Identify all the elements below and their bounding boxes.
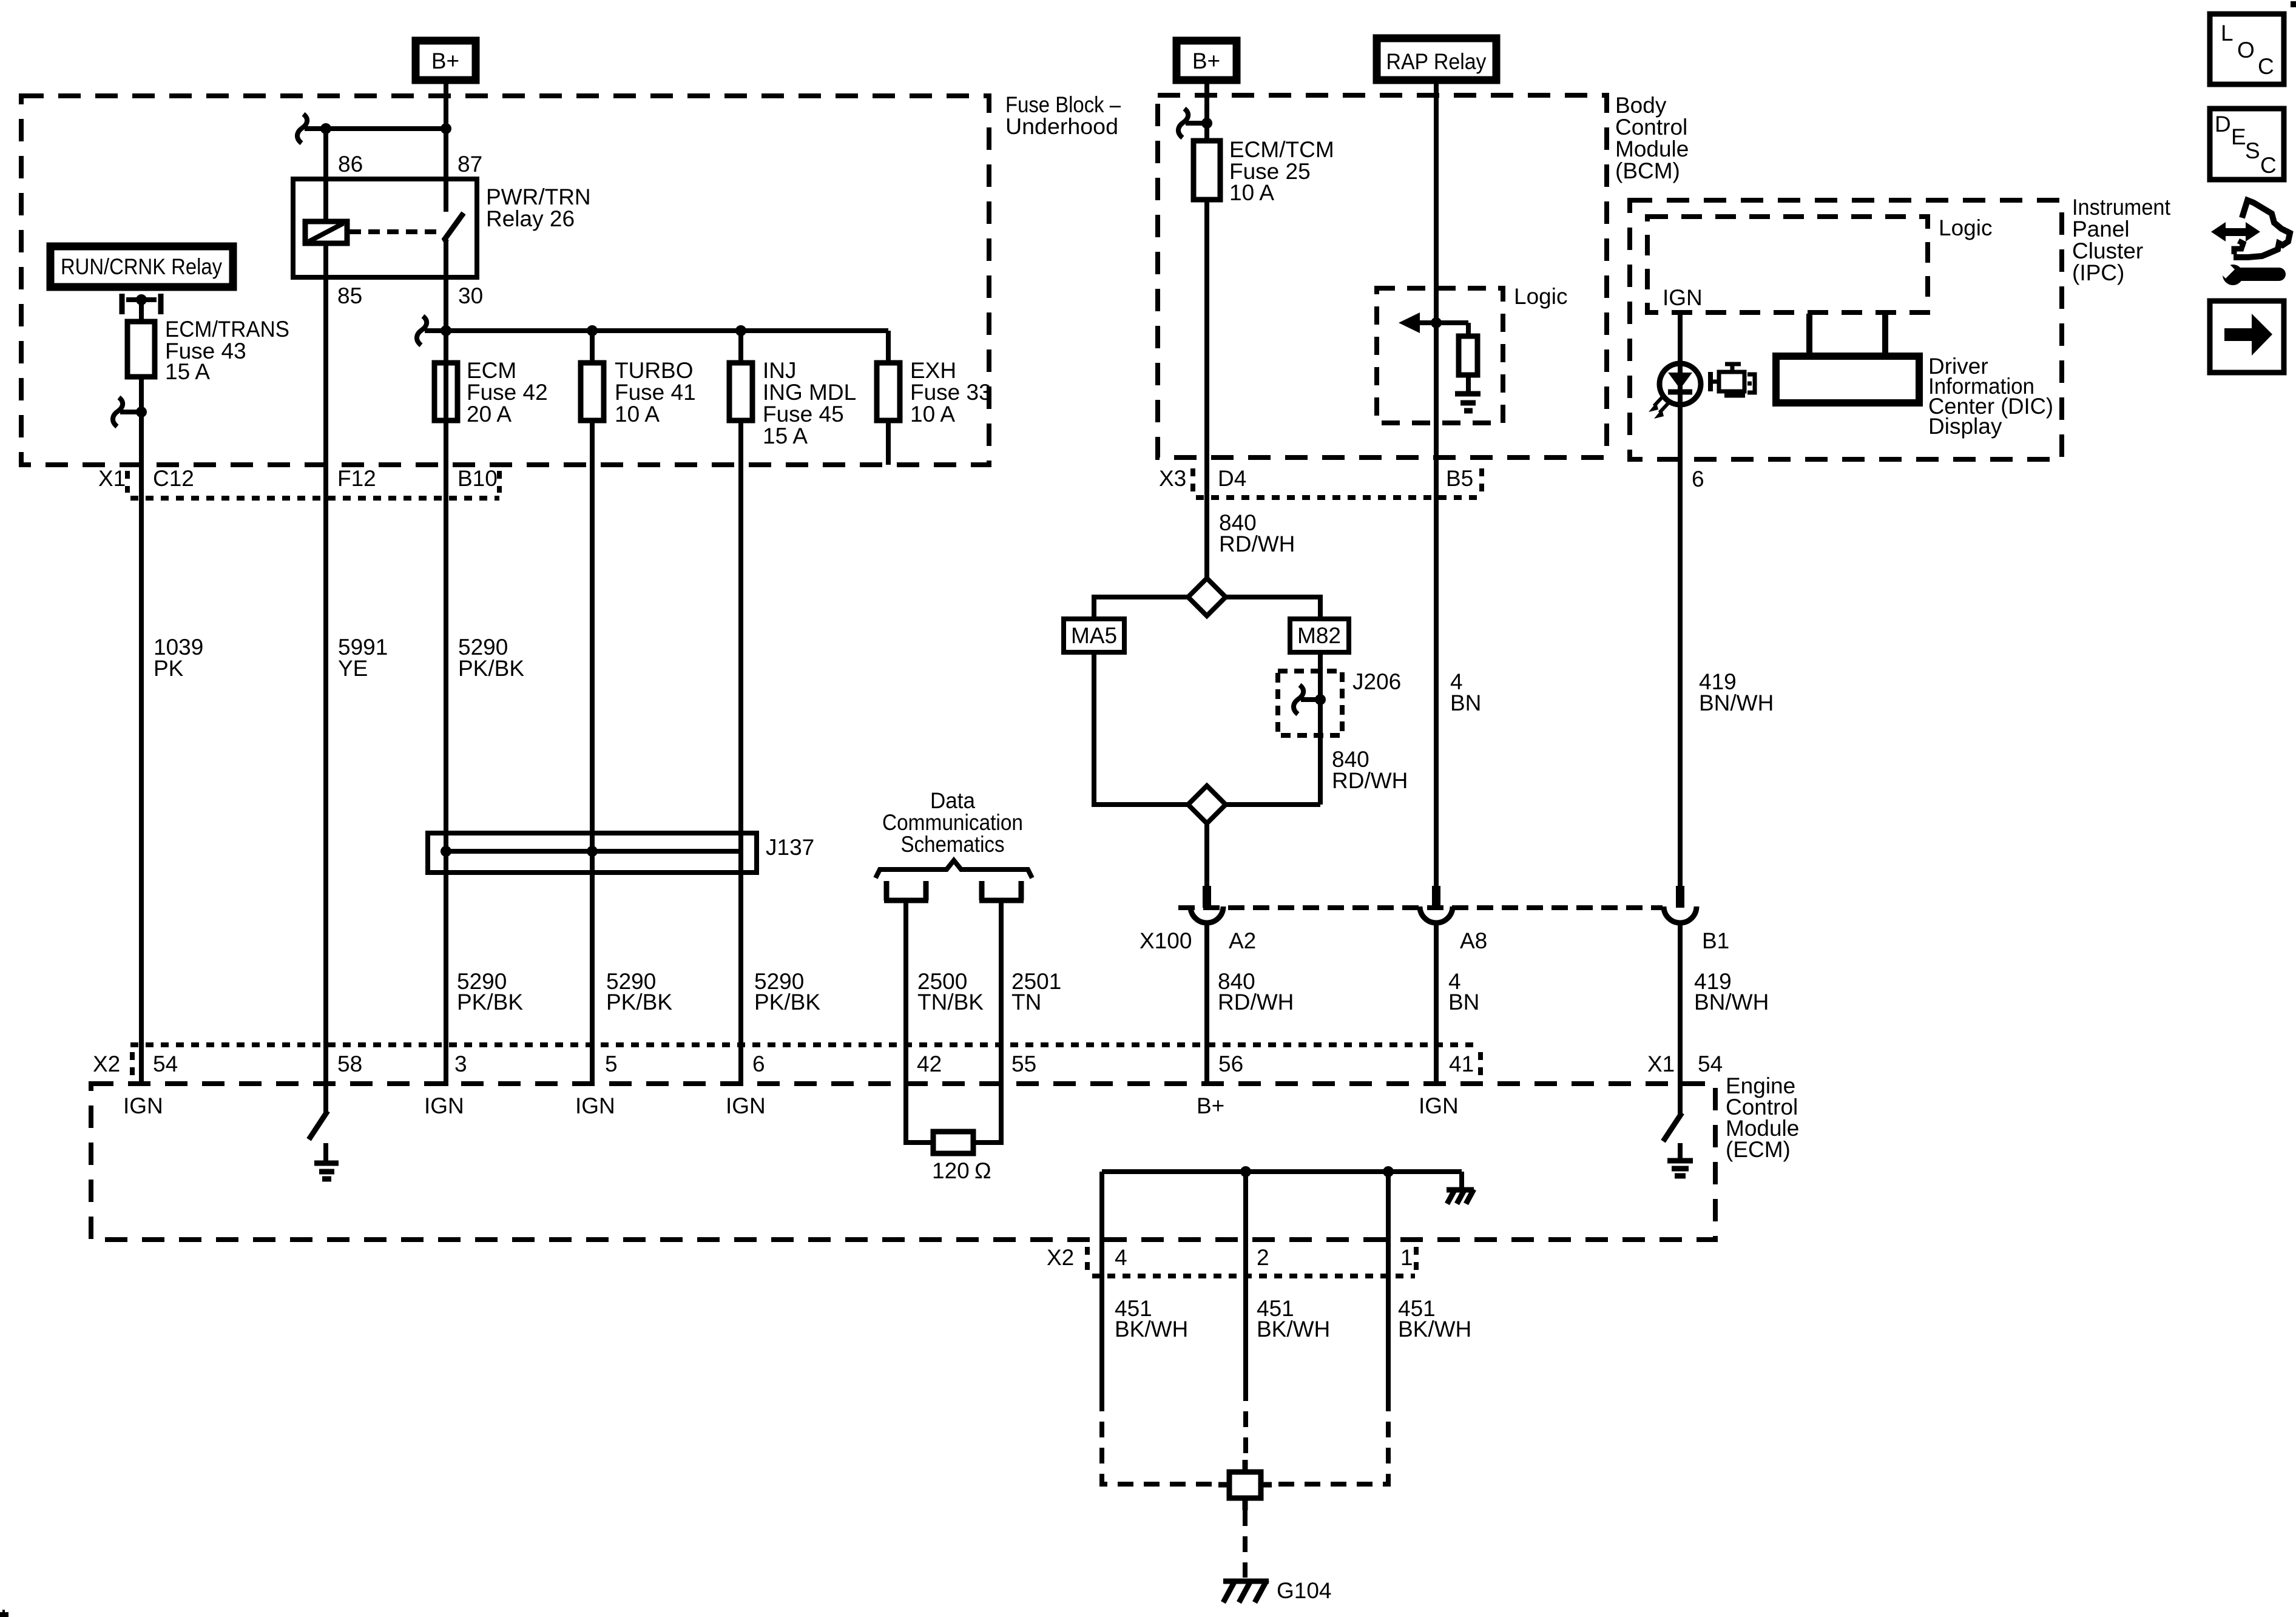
svg-text:54: 54	[153, 1052, 178, 1076]
wire pin 85 down (becomes 5991 YE to ECM 58)	[323, 243, 328, 1086]
wire M82 branch into diamond bottom	[1226, 802, 1320, 807]
switch inside ECM on pin 58	[309, 1084, 328, 1139]
svg-text:TN/BK: TN/BK	[917, 990, 984, 1014]
clip terminal on 86 feed wire	[297, 114, 326, 143]
page corner mark top right	[2291, 1, 2296, 7]
svg-text:86: 86	[338, 152, 363, 177]
svg-text:X3: X3	[1159, 466, 1186, 491]
wire A2 down to ECM 56 (840 RD/WH)	[1204, 923, 1209, 1086]
svg-text:BN: BN	[1450, 690, 1481, 715]
clip terminal on fuse 25 feed	[1178, 109, 1212, 138]
svg-text:ECM/TRANS: ECM/TRANS	[165, 317, 289, 342]
terminal cup wire 2500	[884, 881, 928, 900]
svg-text:F12: F12	[337, 466, 376, 491]
label Instrument Panel Cluster (IPC)	[2072, 195, 2171, 285]
svg-text:B+: B+	[1197, 1093, 1224, 1118]
svg-text:X2: X2	[1047, 1245, 1074, 1270]
svg-text:C: C	[2260, 153, 2277, 178]
svg-text:O: O	[2237, 38, 2255, 62]
svg-text:PK/BK: PK/BK	[457, 990, 523, 1014]
svg-text:ECM: ECM	[467, 358, 516, 383]
svg-text:120: 120	[932, 1158, 970, 1183]
Body Control Module BCM dashed box	[1158, 95, 1607, 457]
wire MA5 down to diamond bottom	[1094, 652, 1188, 805]
svg-text:(BCM): (BCM)	[1615, 158, 1680, 183]
svg-text:Relay 26: Relay 26	[486, 206, 575, 231]
relay terminal posts under RUN/CRNK label	[122, 294, 161, 314]
relay PWR/TRN Relay 26 box	[293, 179, 477, 277]
wire 451 BK/WH pin 4	[1099, 1240, 1104, 1396]
svg-text:EXH: EXH	[910, 358, 956, 383]
wire 451 BK/WH pin 2	[1243, 1240, 1248, 1385]
relay switch blade	[445, 213, 464, 242]
icon hand with double arrow and wrench	[2211, 200, 2290, 285]
svg-text:Fuse 42: Fuse 42	[467, 380, 548, 405]
fuse ECM Fuse 42 20 A	[434, 358, 548, 427]
svg-text:41: 41	[1449, 1052, 1474, 1076]
svg-text:5: 5	[605, 1052, 618, 1076]
resistor 120 ohm	[932, 1132, 991, 1183]
svg-text:Fuse Block –: Fuse Block –	[1005, 92, 1121, 117]
svg-text:Panel: Panel	[2072, 217, 2130, 241]
label Engine Control Module (ECM)	[1726, 1073, 1799, 1162]
connector X100 dashed row	[1178, 905, 1663, 910]
svg-text:RD/WH: RD/WH	[1218, 990, 1294, 1014]
svg-text:BK/WH: BK/WH	[1398, 1317, 1471, 1342]
svg-text:PK/BK: PK/BK	[606, 990, 672, 1014]
wire bus from pin 30 to fuses	[425, 328, 888, 333]
svg-text:15 A: 15 A	[763, 424, 808, 448]
svg-text:Ω: Ω	[974, 1158, 991, 1183]
fuse EXH Fuse 33 10 A	[877, 358, 991, 427]
junction dot pin30/bus	[441, 325, 451, 336]
icon DESC box	[2210, 109, 2284, 180]
svg-text:RAP Relay: RAP Relay	[1386, 49, 1487, 74]
splice block	[1218, 1460, 1272, 1510]
label Data Communication Schematics	[882, 788, 1023, 857]
svg-text:B5: B5	[1446, 466, 1473, 491]
connector X2 row of ECM (bottom)	[1047, 1245, 1416, 1276]
svg-text:2: 2	[1257, 1245, 1269, 1270]
junction dot inj fuse	[735, 325, 746, 336]
splice diamond top	[1188, 578, 1226, 616]
terminal cup wire 2501	[979, 881, 1024, 900]
svg-text:6: 6	[752, 1052, 765, 1076]
dashed run splice to G104	[1243, 1510, 1248, 1578]
svg-text:87: 87	[458, 152, 482, 177]
wire RAP relay down through BCM logic	[1434, 80, 1439, 887]
svg-text:B1: B1	[1702, 928, 1729, 953]
svg-text:Fuse 41: Fuse 41	[615, 380, 696, 405]
junction dot left	[320, 123, 331, 134]
in-line connector terminal A2	[1190, 886, 1256, 953]
wire IGN down through LED indicator	[1678, 312, 1683, 459]
svg-text:M82: M82	[1297, 623, 1341, 648]
svg-text:20 A: 20 A	[467, 402, 512, 427]
svg-text:85: 85	[337, 283, 362, 308]
wire to splice MA5	[1094, 597, 1188, 619]
label box RAP Relay	[1377, 38, 1496, 80]
wire fuse42 column down (5290 PK/BK, pin 3)	[444, 331, 448, 1086]
svg-text:Schematics: Schematics	[901, 832, 1005, 857]
svg-text:RUN/CRNK Relay: RUN/CRNK Relay	[61, 254, 222, 279]
svg-text:PK: PK	[154, 656, 184, 681]
fuse INJ ING MDL Fuse 45 15 A	[729, 358, 856, 448]
svg-text:BN/WH: BN/WH	[1699, 690, 1774, 715]
svg-text:C: C	[2258, 54, 2274, 79]
logic arrow tap	[1399, 312, 1468, 336]
svg-text:30: 30	[458, 283, 483, 308]
wire 6 down to X100 B1 (419 BN/WH)	[1678, 459, 1683, 888]
wire B+ down into BCM	[1204, 80, 1209, 141]
svg-text:E: E	[2231, 124, 2246, 149]
wire 55 to resistor	[973, 1086, 1001, 1143]
svg-text:A2: A2	[1229, 928, 1256, 953]
svg-text:B+: B+	[1192, 49, 1220, 73]
junction dot right	[441, 123, 451, 134]
svg-text:Logic: Logic	[1939, 215, 1992, 240]
svg-text:B+: B+	[431, 49, 459, 73]
fuse ECM/TRANS Fuse 43 15 A	[127, 317, 289, 384]
relay control dashed link	[349, 229, 443, 234]
wire inj column down (pin 6)	[738, 420, 743, 1086]
ground inside BCM logic	[1455, 375, 1481, 411]
wire to fuse 43	[139, 300, 144, 322]
splice M82	[1290, 619, 1349, 652]
power symbol B+ (fuse block feed)	[416, 41, 476, 80]
wire diamond bottom down to X100 A2	[1204, 823, 1209, 888]
logic dashed box inside IPC	[1647, 217, 1928, 312]
svg-text:RD/WH: RD/WH	[1332, 768, 1408, 793]
wire A8 down to ECM 41 (4 BN)	[1434, 923, 1439, 1086]
svg-text:TN: TN	[1011, 990, 1041, 1014]
clip terminal on fuse bus	[417, 316, 427, 345]
svg-text:BK/WH: BK/WH	[1257, 1317, 1330, 1342]
svg-text:Data: Data	[930, 788, 975, 813]
svg-text:15 A: 15 A	[165, 359, 210, 384]
svg-text:A8: A8	[1460, 928, 1487, 953]
svg-text:10 A: 10 A	[910, 402, 955, 427]
wire pin 30 down	[444, 241, 448, 331]
wire B1 down to ECM X1-54 (419 BN/WH)	[1678, 923, 1683, 1086]
resistor inside BCM logic	[1459, 336, 1477, 375]
connector X1 row of ECM (right)	[1647, 1052, 1723, 1076]
svg-text:Fuse 45: Fuse 45	[763, 402, 844, 427]
svg-text:1: 1	[1400, 1245, 1413, 1270]
connector X1 row of fuse block	[98, 466, 499, 498]
label Body Control Module (BCM)	[1615, 93, 1689, 183]
svg-text:IGN: IGN	[726, 1093, 766, 1118]
clip terminal on fuse 43 output	[113, 397, 147, 427]
svg-text:ING MDL: ING MDL	[763, 380, 856, 405]
svg-text:RD/WH: RD/WH	[1219, 532, 1295, 556]
svg-text:IGN: IGN	[424, 1093, 464, 1118]
wire ground bus drop pin 1	[1386, 1172, 1391, 1240]
in-line connector J206 dashed box	[1278, 669, 1401, 735]
svg-text:INJ: INJ	[763, 358, 797, 383]
in-line connector terminal B1	[1664, 886, 1729, 953]
svg-text:PK/BK: PK/BK	[458, 656, 524, 681]
ground G104 chassis symbol	[1223, 1578, 1332, 1603]
svg-text:PK/BK: PK/BK	[754, 990, 820, 1014]
ground bus inside ECM	[1102, 1166, 1462, 1188]
svg-text:PWR/TRN: PWR/TRN	[486, 184, 591, 209]
connector X3 row of BCM	[1159, 466, 1482, 498]
svg-text:3: 3	[454, 1052, 467, 1076]
wire B+ down to junction	[444, 80, 448, 129]
switch inside ECM on pin X1-54	[1663, 1084, 1682, 1141]
svg-text:G104: G104	[1277, 1578, 1332, 1603]
svg-text:54: 54	[1698, 1052, 1723, 1076]
wire M82 down through J206	[1318, 652, 1323, 805]
svg-text:L: L	[2221, 21, 2234, 46]
dashed harness run pin 2 to splice	[1243, 1385, 1248, 1459]
brace under Data Communication Schematics	[876, 860, 1032, 878]
wire ground bus drop pin 4	[1099, 1172, 1104, 1240]
svg-text:10 A: 10 A	[615, 402, 660, 427]
svg-text:BK/WH: BK/WH	[1115, 1317, 1188, 1342]
svg-text:(IPC): (IPC)	[2072, 260, 2124, 285]
svg-text:Body: Body	[1615, 93, 1667, 118]
svg-text:Instrument: Instrument	[2072, 195, 2171, 220]
icon LOC box	[2210, 14, 2284, 84]
wire 86 feed horizontal	[326, 126, 446, 131]
wire below fuse 43 (1039 PK to ECM 54)	[139, 377, 144, 1086]
svg-text:Display: Display	[1928, 414, 2002, 439]
svg-text:6: 6	[1692, 467, 1704, 491]
fuse block dashed box Fuse Block - Underhood	[21, 96, 989, 465]
wire turbo fuse up stub	[590, 331, 595, 363]
junction dot turbo fuse	[587, 325, 598, 336]
wire 2500 TN/BK down to ECM 42	[903, 900, 908, 1086]
svg-text:B10: B10	[458, 466, 498, 491]
svg-text:ECM/TCM: ECM/TCM	[1229, 137, 1334, 162]
svg-text:YE: YE	[338, 656, 368, 681]
in-line connector terminal A8	[1420, 886, 1487, 953]
svg-text:X1: X1	[1647, 1052, 1675, 1076]
logic dashed box inside BCM	[1377, 288, 1503, 423]
wire ground bus drop pin 2	[1243, 1172, 1248, 1240]
relay coil	[305, 221, 347, 243]
wire pin 86 down	[323, 129, 328, 223]
svg-text:(ECM): (ECM)	[1726, 1137, 1791, 1162]
svg-text:42: 42	[917, 1052, 942, 1076]
ground inside ECM (X1-54)	[1667, 1143, 1693, 1176]
wire bus corner down to EXH fuse	[886, 331, 891, 363]
chassis ground inside ECM	[1447, 1189, 1474, 1204]
wire inj fuse up stub	[738, 331, 743, 363]
svg-text:IGN: IGN	[1663, 285, 1703, 310]
svg-text:Communication: Communication	[882, 810, 1023, 835]
engine pictogram (check engine)	[1710, 364, 1755, 396]
svg-text:S: S	[2245, 138, 2260, 163]
svg-text:Cluster: Cluster	[2072, 238, 2143, 263]
svg-text:X100: X100	[1140, 928, 1192, 953]
Engine Control Module ECM dashed box	[91, 1084, 1715, 1240]
svg-text:BN/WH: BN/WH	[1694, 990, 1769, 1014]
DIC display box	[1776, 314, 1919, 403]
svg-text:IGN: IGN	[1419, 1093, 1459, 1118]
splice pack J137	[428, 833, 814, 873]
wire fuse 25 down to splice diamond (840 RD/WH)	[1204, 200, 1209, 580]
svg-text:MA5: MA5	[1071, 623, 1117, 648]
splice MA5	[1064, 619, 1124, 652]
wire exh fuse down to block edge	[886, 420, 891, 465]
icon arrow box	[2210, 301, 2284, 373]
Instrument Panel Cluster IPC dashed box	[1630, 200, 2062, 459]
svg-text:56: 56	[1218, 1052, 1243, 1076]
wire 451 BK/WH pin 1	[1386, 1240, 1391, 1396]
wire 42 to resistor	[906, 1086, 933, 1143]
wire to splice M82	[1226, 597, 1320, 619]
svg-text:Logic: Logic	[1514, 284, 1567, 309]
fuse ECM/TCM Fuse 25 10 A	[1194, 137, 1334, 205]
svg-text:J206: J206	[1352, 669, 1401, 694]
connector X2 row of ECM (top)	[93, 1045, 1481, 1078]
wire pin 87 down	[444, 129, 448, 212]
svg-text:Module: Module	[1615, 137, 1689, 161]
svg-text:IGN: IGN	[575, 1093, 615, 1118]
svg-text:D: D	[2215, 112, 2231, 137]
svg-text:10 A: 10 A	[1229, 180, 1274, 205]
svg-text:J137: J137	[766, 835, 814, 860]
LED indicator (MIL lamp)	[1649, 363, 1701, 419]
splice diamond bottom	[1188, 786, 1226, 823]
label Driver Information Center (DIC) Display	[1928, 354, 2053, 439]
svg-text:TURBO: TURBO	[615, 358, 694, 383]
power symbol B+ (BCM feed)	[1177, 41, 1237, 80]
svg-text:BN: BN	[1448, 990, 1479, 1014]
svg-text:Underhood: Underhood	[1005, 114, 1118, 139]
svg-text:4: 4	[1115, 1245, 1127, 1270]
svg-text:X2: X2	[93, 1052, 120, 1076]
svg-text:IGN: IGN	[123, 1093, 163, 1118]
svg-text:55: 55	[1011, 1052, 1036, 1076]
svg-text:D4: D4	[1218, 466, 1246, 491]
wire 2501 TN down to ECM 55	[999, 900, 1004, 1086]
svg-text:X1: X1	[98, 466, 126, 491]
svg-text:C12: C12	[153, 466, 194, 491]
svg-text:Fuse 33: Fuse 33	[910, 380, 991, 405]
page corner mark bottom left	[0, 1610, 8, 1617]
svg-text:58: 58	[337, 1052, 362, 1076]
dashed harness run pin 4 to splice	[1102, 1396, 1220, 1484]
dashed harness run pin 1 to splice	[1271, 1396, 1388, 1484]
wire turbo column down (pin 5)	[590, 420, 595, 1086]
svg-text:Control: Control	[1615, 115, 1687, 140]
ground inside ECM (pin 58)	[314, 1143, 339, 1179]
fuse TURBO Fuse 41 10 A	[581, 358, 696, 427]
clip terminal inside J206	[1294, 685, 1326, 714]
label box RUN/CRNK Relay	[50, 246, 233, 287]
